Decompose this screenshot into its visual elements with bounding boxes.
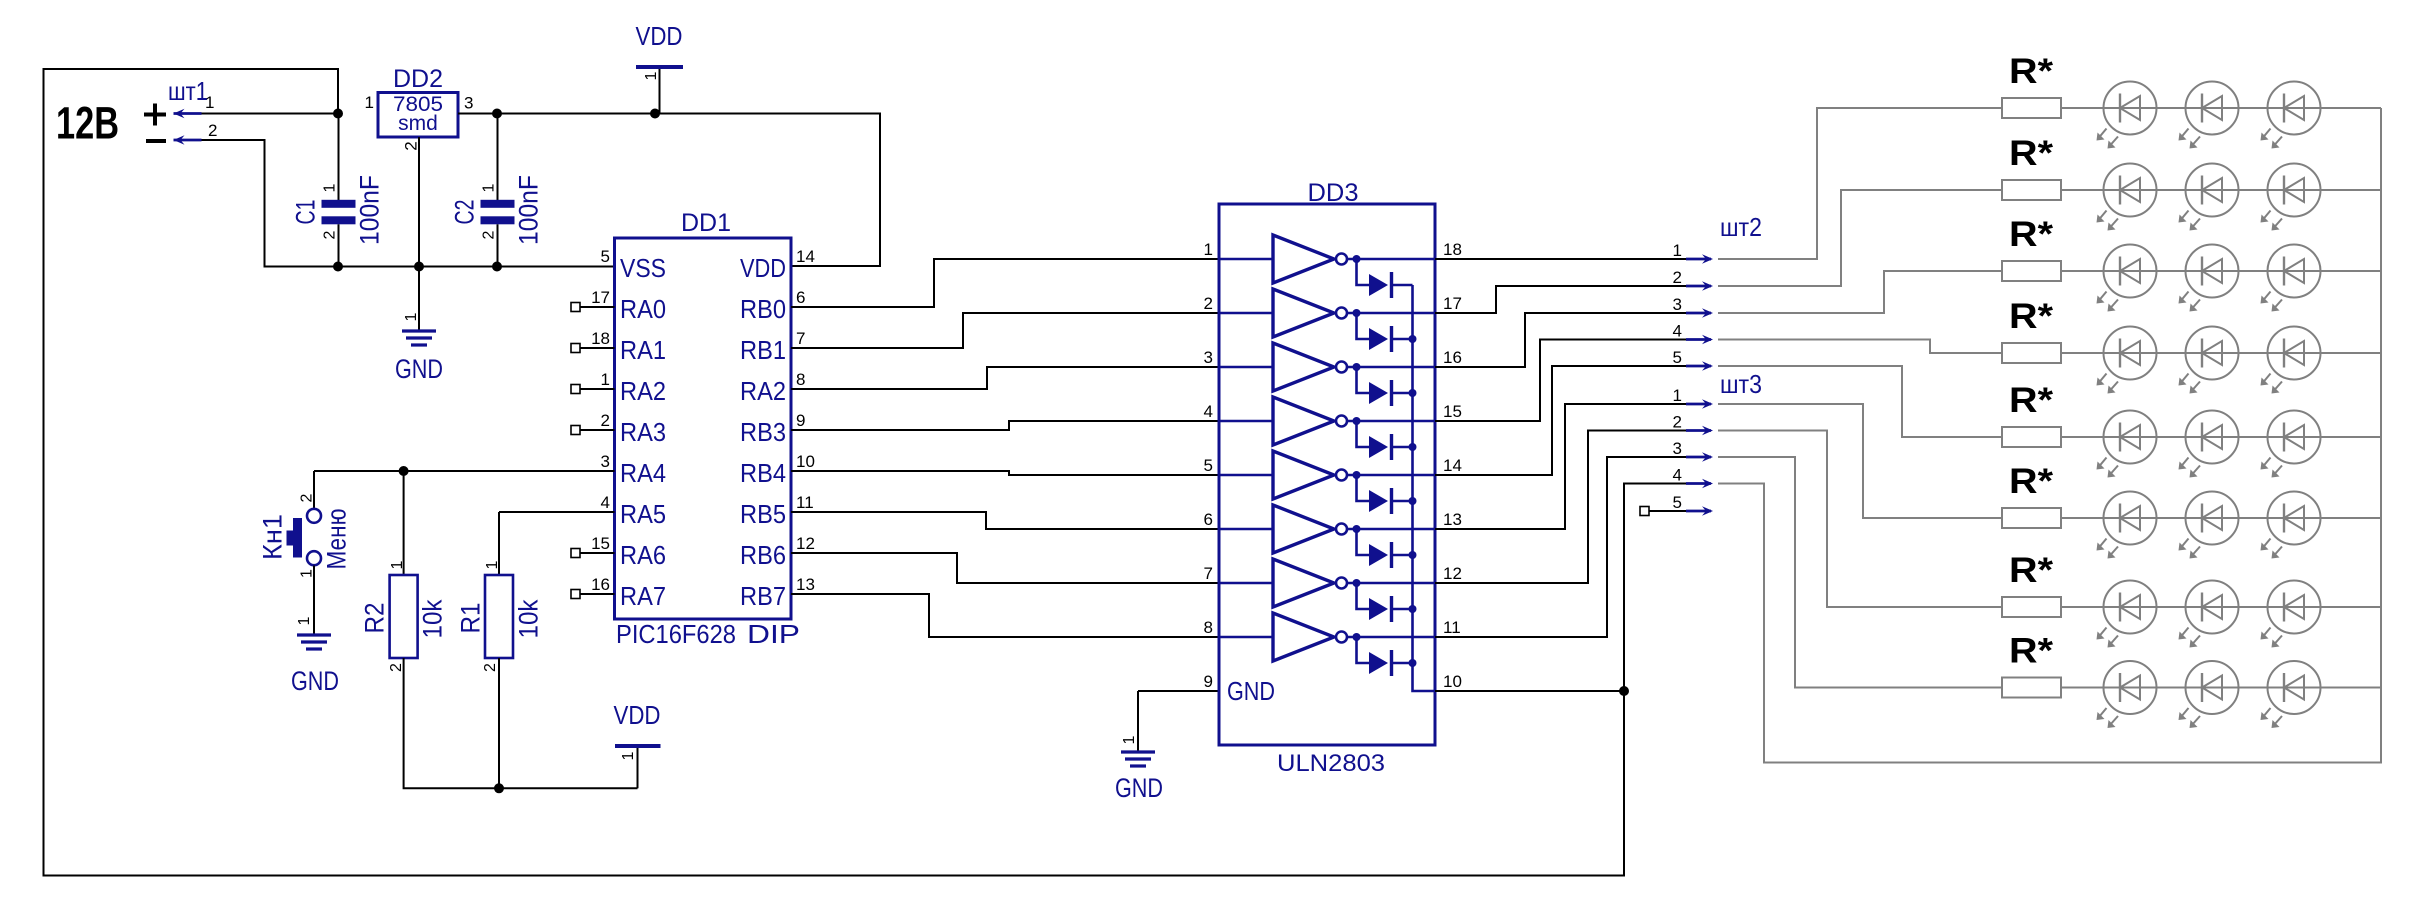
LED row 7 col 2	[2179, 581, 2239, 648]
svg-text:DD2: DD2	[393, 65, 443, 93]
wire шт pin to LED row 2	[1718, 190, 2002, 286]
button pin 2 number	[298, 493, 315, 502]
svg-text:18: 18	[1443, 240, 1462, 259]
svg-text:11: 11	[796, 493, 814, 512]
svg-text:RB5: RB5	[740, 499, 786, 529]
svg-text:3: 3	[1673, 295, 1682, 314]
button Кн1 label Меню	[322, 509, 352, 570]
wire DD3.10 common	[1435, 690, 1624, 692]
buffer U6 of DD3	[1219, 505, 1435, 553]
svg-text:4: 4	[1673, 466, 1682, 485]
svg-text:VSS: VSS	[620, 253, 666, 283]
wire шт pin to LED row 6	[1718, 404, 2002, 518]
buffer U3 of DD3	[1219, 343, 1435, 391]
svg-text:GND: GND	[1115, 773, 1163, 803]
DD2 pin 2 number	[402, 141, 421, 150]
LED row 7 col 1	[2097, 581, 2157, 648]
LED row 4 col 3	[2261, 327, 2321, 394]
svg-text:2: 2	[298, 493, 315, 502]
LED row 5 col 3	[2261, 411, 2321, 478]
resistor R* row 4	[2002, 343, 2061, 363]
svg-text:RB4: RB4	[740, 458, 786, 488]
svg-text:1: 1	[1673, 386, 1682, 405]
junction R2 top	[399, 466, 409, 476]
unconnected pin RA2	[571, 385, 580, 394]
R2 value 10k	[418, 599, 448, 638]
wire DD3 diode common bus to pin 10	[1413, 285, 1436, 691]
wire LED row 7	[2061, 606, 2381, 608]
svg-text:VDD: VDD	[614, 700, 661, 730]
power VDD symbol top	[636, 67, 683, 114]
svg-text:15: 15	[591, 534, 610, 553]
wire DD3.16 to connector	[1435, 313, 1686, 367]
junction +12V node	[333, 109, 343, 119]
svg-text:GND: GND	[291, 666, 339, 696]
svg-text:8: 8	[796, 370, 805, 389]
svg-text:RA2: RA2	[620, 376, 666, 406]
resistor R* row 8	[2002, 678, 2061, 698]
svg-text:1: 1	[484, 560, 501, 569]
wire LED row 4	[2061, 352, 2381, 354]
resistor R* row 7	[2002, 597, 2061, 617]
unconnected pin RA6	[571, 549, 580, 558]
svg-text:1: 1	[298, 569, 315, 578]
svg-text:RB3: RB3	[740, 417, 786, 447]
C2 pin 2 number	[480, 230, 497, 239]
wire шт3.5 stub	[1648, 510, 1686, 512]
svg-text:VDD: VDD	[740, 253, 786, 283]
op IC DD1 body	[615, 238, 792, 619]
svg-text:RB7: RB7	[740, 581, 786, 611]
svg-text:10k: 10k	[514, 599, 544, 638]
svg-text:13: 13	[1443, 510, 1462, 529]
svg-text:GND: GND	[1227, 676, 1275, 706]
wire шт pin to LED row 5	[1718, 366, 2002, 437]
buffer U1 of DD3	[1219, 235, 1435, 283]
buffer U2 of DD3	[1219, 289, 1435, 337]
wire button to ground	[313, 566, 315, 636]
svg-text:100nF: 100nF	[355, 175, 385, 245]
wire DD2 GND stem	[418, 267, 420, 332]
LED row 4 col 2	[2179, 327, 2239, 394]
R1 designator	[456, 603, 486, 634]
wire DD3 pin9 to ground	[1138, 690, 1219, 692]
plus sign	[144, 104, 166, 126]
resistor R* row 2	[2002, 180, 2061, 200]
svg-text:2: 2	[402, 141, 421, 150]
svg-text:9: 9	[1204, 672, 1213, 691]
R2 designator	[360, 603, 390, 634]
wire GND rail to VSS	[202, 140, 615, 267]
svg-text:RA1: RA1	[620, 335, 666, 365]
svg-text:2: 2	[1204, 294, 1213, 313]
diode D7 of DD3	[1357, 583, 1413, 622]
svg-text:шт2: шт2	[1720, 212, 1762, 242]
svg-text:2: 2	[601, 411, 610, 430]
wire RB6 to DD3 input 7	[791, 553, 1219, 583]
LED row 4 col 1	[2097, 327, 2157, 394]
svg-text:2: 2	[1673, 413, 1682, 432]
wire LED row 2	[2061, 189, 2381, 191]
LED row 1 col 1	[2097, 82, 2157, 149]
svg-text:18: 18	[591, 329, 610, 348]
wire +12V return to LED bus	[1718, 108, 2381, 763]
svg-text:RA7: RA7	[620, 581, 666, 611]
svg-text:1: 1	[1204, 240, 1213, 259]
junction diode D7 to common bus	[1409, 605, 1417, 613]
ground GND symbol under DD2	[402, 331, 436, 345]
wire шт pin to LED row 4	[1718, 340, 2002, 354]
svg-text:R*: R*	[2009, 462, 2053, 501]
svg-text:5: 5	[1673, 493, 1682, 512]
connector шт2 pin 1 arrow	[1686, 254, 1713, 264]
wire LED row 5	[2061, 436, 2381, 438]
wire DD1 stub RA7	[580, 593, 615, 595]
junction C1 bottom	[333, 262, 343, 272]
diode D8 of DD3	[1357, 637, 1413, 676]
svg-text:R*: R*	[2009, 381, 2053, 420]
wire шт pin to LED row 3	[1718, 271, 2002, 313]
svg-text:R*: R*	[2009, 134, 2053, 173]
resistor R1	[485, 575, 513, 658]
wire RB1 to DD3 input 2	[791, 313, 1219, 348]
svg-text:RA6: RA6	[620, 540, 666, 570]
svg-text:12: 12	[796, 534, 815, 553]
svg-text:16: 16	[591, 575, 610, 594]
driver IC DD3 body	[1219, 204, 1435, 745]
LED row 6 col 1	[2097, 492, 2157, 559]
C2 designator	[450, 200, 480, 225]
button Кн1 designator	[258, 514, 288, 560]
resistor R* row 3	[2002, 261, 2061, 281]
buffer U8 of DD3	[1219, 613, 1435, 661]
svg-text:PIC16F628: PIC16F628	[616, 619, 736, 649]
LED row 6 col 2	[2179, 492, 2239, 559]
svg-text:12В: 12В	[56, 98, 119, 149]
unconnected pin RA3	[571, 426, 580, 435]
svg-text:ULN2803: ULN2803	[1277, 750, 1385, 777]
unconnected pin RA1	[571, 344, 580, 353]
junction diode D2 to common bus	[1409, 335, 1417, 343]
svg-text:8: 8	[1204, 618, 1213, 637]
svg-text:R*: R*	[2009, 297, 2053, 336]
LED row 8 col 1	[2097, 661, 2157, 728]
svg-text:15: 15	[1443, 402, 1462, 421]
unconnected pin RA0	[571, 303, 580, 312]
svg-text:RB1: RB1	[740, 335, 786, 365]
svg-text:7: 7	[796, 329, 805, 348]
wire DD1 stub RA6	[580, 552, 615, 554]
svg-text:1: 1	[480, 183, 497, 192]
svg-text:Меню: Меню	[322, 509, 352, 570]
svg-text:4: 4	[601, 493, 610, 512]
svg-text:2: 2	[482, 663, 499, 672]
svg-text:3: 3	[1673, 439, 1682, 458]
diode D6 of DD3	[1357, 529, 1413, 568]
svg-text:17: 17	[591, 288, 610, 307]
C1 value 100nF	[355, 175, 385, 245]
wire RB4 to DD3 input 5	[791, 471, 1219, 475]
svg-text:3: 3	[464, 94, 473, 113]
LED row 1 col 2	[2179, 82, 2239, 149]
wire R1 bottom lead	[498, 658, 500, 788]
LED row 3 col 2	[2179, 245, 2239, 312]
svg-text:1: 1	[389, 560, 406, 569]
diode D1 of DD3	[1357, 259, 1413, 298]
junction VDD symbol	[650, 109, 660, 119]
LED row 3 col 1	[2097, 245, 2157, 312]
wire RB0 to DD3 input 1	[791, 259, 1219, 307]
wire RB3 to DD3 input 4	[791, 421, 1219, 430]
svg-text:DD1: DD1	[681, 209, 731, 237]
unconnected pin RA7	[571, 590, 580, 599]
wire DD3.11 to connector	[1435, 457, 1686, 637]
svg-text:13: 13	[796, 575, 815, 594]
capacitor C2	[481, 114, 515, 267]
svg-text:4: 4	[1673, 322, 1682, 341]
wire DD1 stub RA0	[580, 306, 615, 308]
LED row 2 col 3	[2261, 164, 2321, 231]
VDD top pin 1 number	[643, 71, 660, 80]
svg-text:RB6: RB6	[740, 540, 786, 570]
wire шт pin to LED row 8	[1718, 457, 2002, 688]
junction diode D4 to common bus	[1409, 443, 1417, 451]
wire DD3.14 to connector	[1435, 366, 1686, 475]
wire +12V border loop	[44, 69, 1625, 876]
svg-text:C1: C1	[291, 200, 321, 225]
wire LED row 6	[2061, 517, 2381, 519]
wire шт pin to LED row 7	[1718, 431, 2002, 608]
resistor R* row 5	[2002, 427, 2061, 447]
connector шт2 pin 5 arrow	[1686, 361, 1713, 371]
svg-text:6: 6	[1204, 510, 1213, 529]
LED row 1 col 3	[2261, 82, 2321, 149]
wire LED row 1	[2061, 107, 2381, 109]
resistor R2	[390, 575, 418, 658]
svg-text:R*: R*	[2009, 52, 2053, 91]
svg-text:шт3: шт3	[1720, 369, 1762, 399]
connector шт3 pin 1 arrow	[1686, 399, 1713, 409]
junction pin10 node	[1619, 686, 1629, 696]
svg-text:RB0: RB0	[740, 294, 786, 324]
svg-text:10k: 10k	[418, 599, 448, 638]
C2 value 100nF	[514, 175, 544, 245]
svg-text:RA0: RA0	[620, 294, 666, 324]
C1 pin 2 number	[321, 230, 338, 239]
LED row 5 col 1	[2097, 411, 2157, 478]
svg-text:RA2: RA2	[740, 376, 786, 406]
svg-text:5: 5	[601, 247, 610, 266]
svg-text:17: 17	[1443, 294, 1462, 313]
wire DD1 stub RA3	[580, 429, 615, 431]
wire pin10 node to шт3.4	[1624, 484, 1686, 692]
LED row 3 col 3	[2261, 245, 2321, 312]
junction C2 bottom	[492, 262, 502, 272]
junction diode D5 to common bus	[1409, 497, 1417, 505]
VDD bottom pin 1 number	[620, 751, 637, 760]
svg-text:5: 5	[1673, 348, 1682, 367]
svg-text:7: 7	[1204, 564, 1213, 583]
svg-text:4: 4	[1204, 402, 1213, 421]
LED row 2 col 1	[2097, 164, 2157, 231]
junction diode D8 to common bus	[1409, 659, 1417, 667]
svg-text:12: 12	[1443, 564, 1462, 583]
svg-text:2: 2	[321, 230, 338, 239]
diode D4 of DD3	[1357, 421, 1413, 460]
diode D3 of DD3	[1357, 367, 1413, 406]
svg-text:1: 1	[1121, 735, 1138, 744]
wire LED row 3	[2061, 270, 2381, 272]
svg-text:2: 2	[480, 230, 497, 239]
power VDD symbol bottom	[615, 746, 661, 788]
svg-text:1: 1	[1673, 241, 1682, 260]
svg-text:R*: R*	[2009, 551, 2053, 590]
connector шт1 pin 2 arrow	[174, 135, 202, 145]
svg-text:1: 1	[205, 93, 214, 112]
svg-text:smd: smd	[398, 112, 438, 135]
LED row 8 col 2	[2179, 661, 2239, 728]
wire LED row 8	[2061, 687, 2381, 689]
svg-text:1: 1	[365, 93, 374, 112]
svg-text:Кн1: Кн1	[258, 514, 288, 560]
wire DD3 GND stem	[1137, 691, 1139, 752]
wire DD3.12 to connector	[1435, 431, 1686, 584]
wire RA5 to R1	[499, 511, 615, 513]
wire button top	[313, 471, 315, 509]
LED row 6 col 3	[2261, 492, 2321, 559]
svg-text:6: 6	[796, 288, 805, 307]
svg-text:RA5: RA5	[620, 499, 666, 529]
capacitor C1	[322, 114, 356, 267]
junction DD2 GND	[414, 262, 424, 272]
wire RA4 to button	[314, 470, 615, 472]
ground GND symbol under DD3	[1121, 752, 1155, 766]
svg-text:RA3: RA3	[620, 417, 666, 447]
ground GND symbol under button	[297, 635, 331, 649]
svg-text:10: 10	[1443, 672, 1462, 691]
svg-text:1: 1	[643, 71, 660, 80]
svg-text:RA4: RA4	[620, 458, 666, 488]
connector шт2 pin 2 arrow	[1686, 281, 1713, 291]
connector шт3 pin 2 arrow	[1686, 426, 1713, 436]
R1 pin 1 number	[484, 560, 501, 569]
wire RB5 to DD3 input 6	[791, 512, 1219, 529]
unconnected pin шт3.5	[1640, 507, 1649, 516]
wire RB2 to DD3 input 3	[791, 367, 1219, 389]
wire DD3.15 to connector	[1435, 340, 1686, 422]
svg-text:R2: R2	[360, 603, 390, 634]
connector шт2 pin 3 arrow	[1686, 308, 1713, 318]
LED row 5 col 2	[2179, 411, 2239, 478]
wire шт pin to LED row 1	[1718, 108, 2002, 259]
minus sign	[146, 139, 166, 143]
LED row 8 col 3	[2261, 661, 2321, 728]
wire DD3.17 to connector	[1435, 286, 1686, 313]
svg-text:2: 2	[208, 121, 217, 140]
GND1 pin 1 number	[403, 312, 420, 321]
C2 pin 1 number	[480, 183, 497, 192]
junction R1 bottom	[494, 783, 504, 793]
LED row 7 col 3	[2261, 581, 2321, 648]
svg-text:1: 1	[620, 751, 637, 760]
diode D5 of DD3	[1357, 475, 1413, 514]
svg-text:1: 1	[601, 370, 610, 389]
diode D2 of DD3	[1357, 313, 1413, 352]
svg-text:14: 14	[1443, 456, 1462, 475]
svg-text:1: 1	[296, 616, 313, 625]
buffer U5 of DD3	[1219, 451, 1435, 499]
svg-text:100nF: 100nF	[514, 175, 544, 245]
svg-text:VDD: VDD	[636, 21, 683, 51]
wire R2 bottom to VDD rail	[404, 658, 638, 788]
svg-text:R1: R1	[456, 603, 486, 634]
regulator DD2 body	[378, 93, 458, 138]
wire DD1 stub RA2	[580, 388, 615, 390]
R2 pin 2 number	[388, 663, 405, 672]
connector шт1 pin 1 arrow	[174, 109, 202, 119]
connector шт3 pin 4 arrow	[1686, 479, 1713, 489]
wire DD2 pin2 to GND rail	[418, 137, 420, 267]
svg-text:10: 10	[796, 452, 815, 471]
wire DD3.18 to шт2.1	[1435, 258, 1686, 260]
svg-text:1: 1	[403, 312, 420, 321]
C1 pin 1 number	[321, 183, 338, 192]
svg-text:шт1: шт1	[168, 76, 208, 106]
wire шт1.1 to +12V node	[202, 113, 339, 115]
svg-text:16: 16	[1443, 348, 1462, 367]
svg-text:DIP: DIP	[747, 619, 800, 649]
wire +5V rail DD2 pin3 to DD1 VDD	[458, 114, 880, 267]
wire DD3.13 to connector	[1435, 404, 1686, 529]
resistor R* row 1	[2002, 98, 2061, 118]
C1 designator	[291, 200, 321, 225]
svg-text:11: 11	[1443, 618, 1461, 637]
wire DD1 stub RA1	[580, 347, 615, 349]
connector шт2 pin 4 arrow	[1686, 335, 1713, 345]
svg-text:3: 3	[1204, 348, 1213, 367]
R2 pin 1 number	[389, 560, 406, 569]
R1 value 10k	[514, 599, 544, 638]
svg-text:1: 1	[321, 183, 338, 192]
resistor R* row 6	[2002, 508, 2061, 528]
buffer U7 of DD3	[1219, 559, 1435, 607]
svg-text:C2: C2	[450, 200, 480, 225]
junction C2 top	[492, 109, 502, 119]
wire R2 top lead	[403, 471, 405, 575]
svg-text:14: 14	[796, 247, 815, 266]
buffer U4 of DD3	[1219, 397, 1435, 445]
LED row 2 col 2	[2179, 164, 2239, 231]
button Кн1	[287, 509, 322, 565]
junction diode D6 to common bus	[1409, 551, 1417, 559]
junction diode D3 to common bus	[1409, 389, 1417, 397]
connector шт3 pin 5 arrow	[1686, 506, 1713, 516]
wire R1 top lead	[498, 512, 500, 575]
GND2 pin 1 number	[296, 616, 313, 625]
svg-text:R*: R*	[2009, 632, 2053, 671]
svg-text:3: 3	[601, 452, 610, 471]
svg-text:5: 5	[1204, 456, 1213, 475]
svg-text:2: 2	[388, 663, 405, 672]
svg-text:R*: R*	[2009, 215, 2053, 254]
svg-text:9: 9	[796, 411, 805, 430]
GND3 pin 1 number	[1121, 735, 1138, 744]
R1 pin 2 number	[482, 663, 499, 672]
svg-text:2: 2	[1673, 268, 1682, 287]
wire RB7 to DD3 input 8	[791, 594, 1219, 637]
connector шт3 pin 3 arrow	[1686, 452, 1713, 462]
svg-text:GND: GND	[395, 354, 443, 384]
